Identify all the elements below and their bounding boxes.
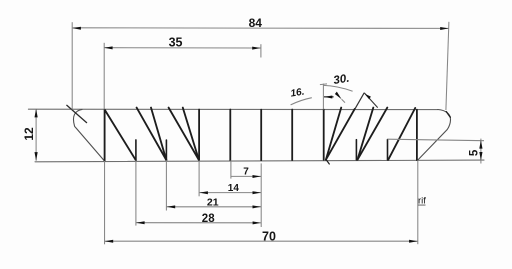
tooth 6 flank diagonal (30 deg) <box>358 108 388 160</box>
full vertical at x=230.3 <box>229 110 231 161</box>
extension upper line of dim 5 <box>388 139 484 141</box>
full vertical at x=261.2 <box>260 110 262 161</box>
extension below bar at x=104.55 <box>104 161 106 244</box>
tick at top of angle extension <box>320 83 327 86</box>
tail line of left angle arrow <box>324 96 334 97</box>
svg-text:14: 14 <box>228 183 240 194</box>
tooth root short vertical at x=166.4 <box>165 140 167 160</box>
arrow 21 right <box>253 205 262 208</box>
underline below rif <box>418 204 426 207</box>
tooth 5 flank diagonal (30 deg, mirrored) <box>326 109 355 160</box>
bottom edge of bar (also extension for 12, 70 and 5 dims) <box>35 160 484 162</box>
dimension line 21 <box>167 206 262 208</box>
tooth 6 flank diagonal (16 deg) <box>358 108 374 160</box>
arrow 21 left <box>167 205 176 208</box>
dimension line 12 (vertical) <box>35 109 37 161</box>
tooth 5 root overshoot below bottom edge <box>326 160 329 164</box>
dimension line 14 <box>199 192 261 194</box>
right end arc and chamfer <box>418 110 451 161</box>
angle arrow pointing left at vertical ext <box>324 96 333 99</box>
full vertical at x=199.1 <box>198 110 200 161</box>
svg-text:84: 84 <box>249 16 263 30</box>
tooth 7 flank diagonal <box>388 108 415 160</box>
arrow 5 top (up) <box>479 140 482 149</box>
arrow 70 left <box>105 240 114 243</box>
arrow 70 right <box>409 240 418 243</box>
svg-text:12: 12 <box>22 127 36 141</box>
angle arc for 30 deg <box>323 85 352 91</box>
svg-text:21: 21 <box>207 197 219 209</box>
arrow 28 left <box>136 221 145 224</box>
angle arc for 16 deg <box>291 98 312 105</box>
left corner overshoot stroke <box>67 105 87 122</box>
arrow 84 left <box>72 27 81 30</box>
extension line left of dim 35 <box>103 43 105 110</box>
dimension line 28 <box>136 222 261 224</box>
arrow 28 right <box>253 221 262 224</box>
30deg flank extension above bar with arrow <box>355 93 378 109</box>
svg-text:35: 35 <box>169 36 183 50</box>
extension below bar at x=135.9 <box>135 160 137 225</box>
tooth 3 face diagonal (16 deg) <box>183 108 199 160</box>
tooth root short vertical at x=387.5 <box>387 140 389 160</box>
flank extension line above bar (left leg) <box>355 93 364 109</box>
arrow 84 right <box>440 27 449 30</box>
tooth root short vertical at x=356.4 <box>355 140 357 160</box>
dimension line 35 <box>104 47 261 49</box>
svg-text:16.: 16. <box>290 87 305 100</box>
arrow 35 left <box>104 46 113 49</box>
svg-text:28: 28 <box>202 213 215 225</box>
tooth 1 back diagonal <box>105 110 136 160</box>
extension below bar at x=166.4 <box>165 160 167 210</box>
left end arc and chamfer <box>73 109 104 160</box>
full vertical at x=292.2 <box>291 110 293 161</box>
tooth root short vertical at x=135.9 <box>135 140 137 160</box>
arrow 14 right <box>253 191 262 194</box>
svg-text:30.: 30. <box>333 73 351 87</box>
tooth 3 back diagonal (30 deg) <box>169 108 199 160</box>
dimension line 70 <box>105 240 418 242</box>
extension line left of dim 84 <box>71 22 73 109</box>
extension below bar at x=417.8 (rif line) <box>417 160 419 244</box>
svg-text:70: 70 <box>262 229 276 243</box>
arrow 35 right <box>252 47 261 50</box>
svg-text:5: 5 <box>468 149 480 156</box>
tooth face vertical (full) at x=416.9 <box>416 110 418 160</box>
tooth face vertical (full) at x=104.6 <box>104 110 106 161</box>
tooth 5 flank diagonal (16 deg, mirrored) <box>326 108 341 160</box>
arrow 12 bottom (down) <box>35 152 38 161</box>
extension below bar at x=261.2 <box>260 163 262 227</box>
dimension line 84 <box>72 27 449 30</box>
arrow 14 left <box>199 191 208 194</box>
tooth 2 back diagonal (30 deg) <box>137 108 167 160</box>
angle arrowhead pointing right-down <box>334 91 342 99</box>
full vertical at x=323.7 <box>323 110 325 160</box>
arrowhead near lambda apex pointing up-left <box>365 94 371 100</box>
tooth 2 face diagonal (16 deg) <box>151 108 166 160</box>
dimension line 5 (vertical) <box>480 139 482 164</box>
extension vertical above tooth at x=323.4 (angle annotation) <box>322 84 324 110</box>
arrow 12 top (up) <box>35 109 38 118</box>
leader right leg <box>364 93 378 108</box>
arrow 5 bottom (down) <box>479 152 482 161</box>
svg-text:7: 7 <box>243 166 249 177</box>
leader line after right-down arrowhead <box>342 99 345 102</box>
arrow 7 right <box>253 175 262 178</box>
dimension line 7 <box>231 175 261 177</box>
extension tick right of dim 35 <box>260 44 262 57</box>
extension line right of dim 84 <box>446 22 449 110</box>
top edge of bar <box>28 108 437 110</box>
extension below bar at x=230.9 <box>230 160 232 178</box>
extension below bar at x=199.1 <box>198 160 200 196</box>
right corner overshoot tick <box>446 112 450 118</box>
